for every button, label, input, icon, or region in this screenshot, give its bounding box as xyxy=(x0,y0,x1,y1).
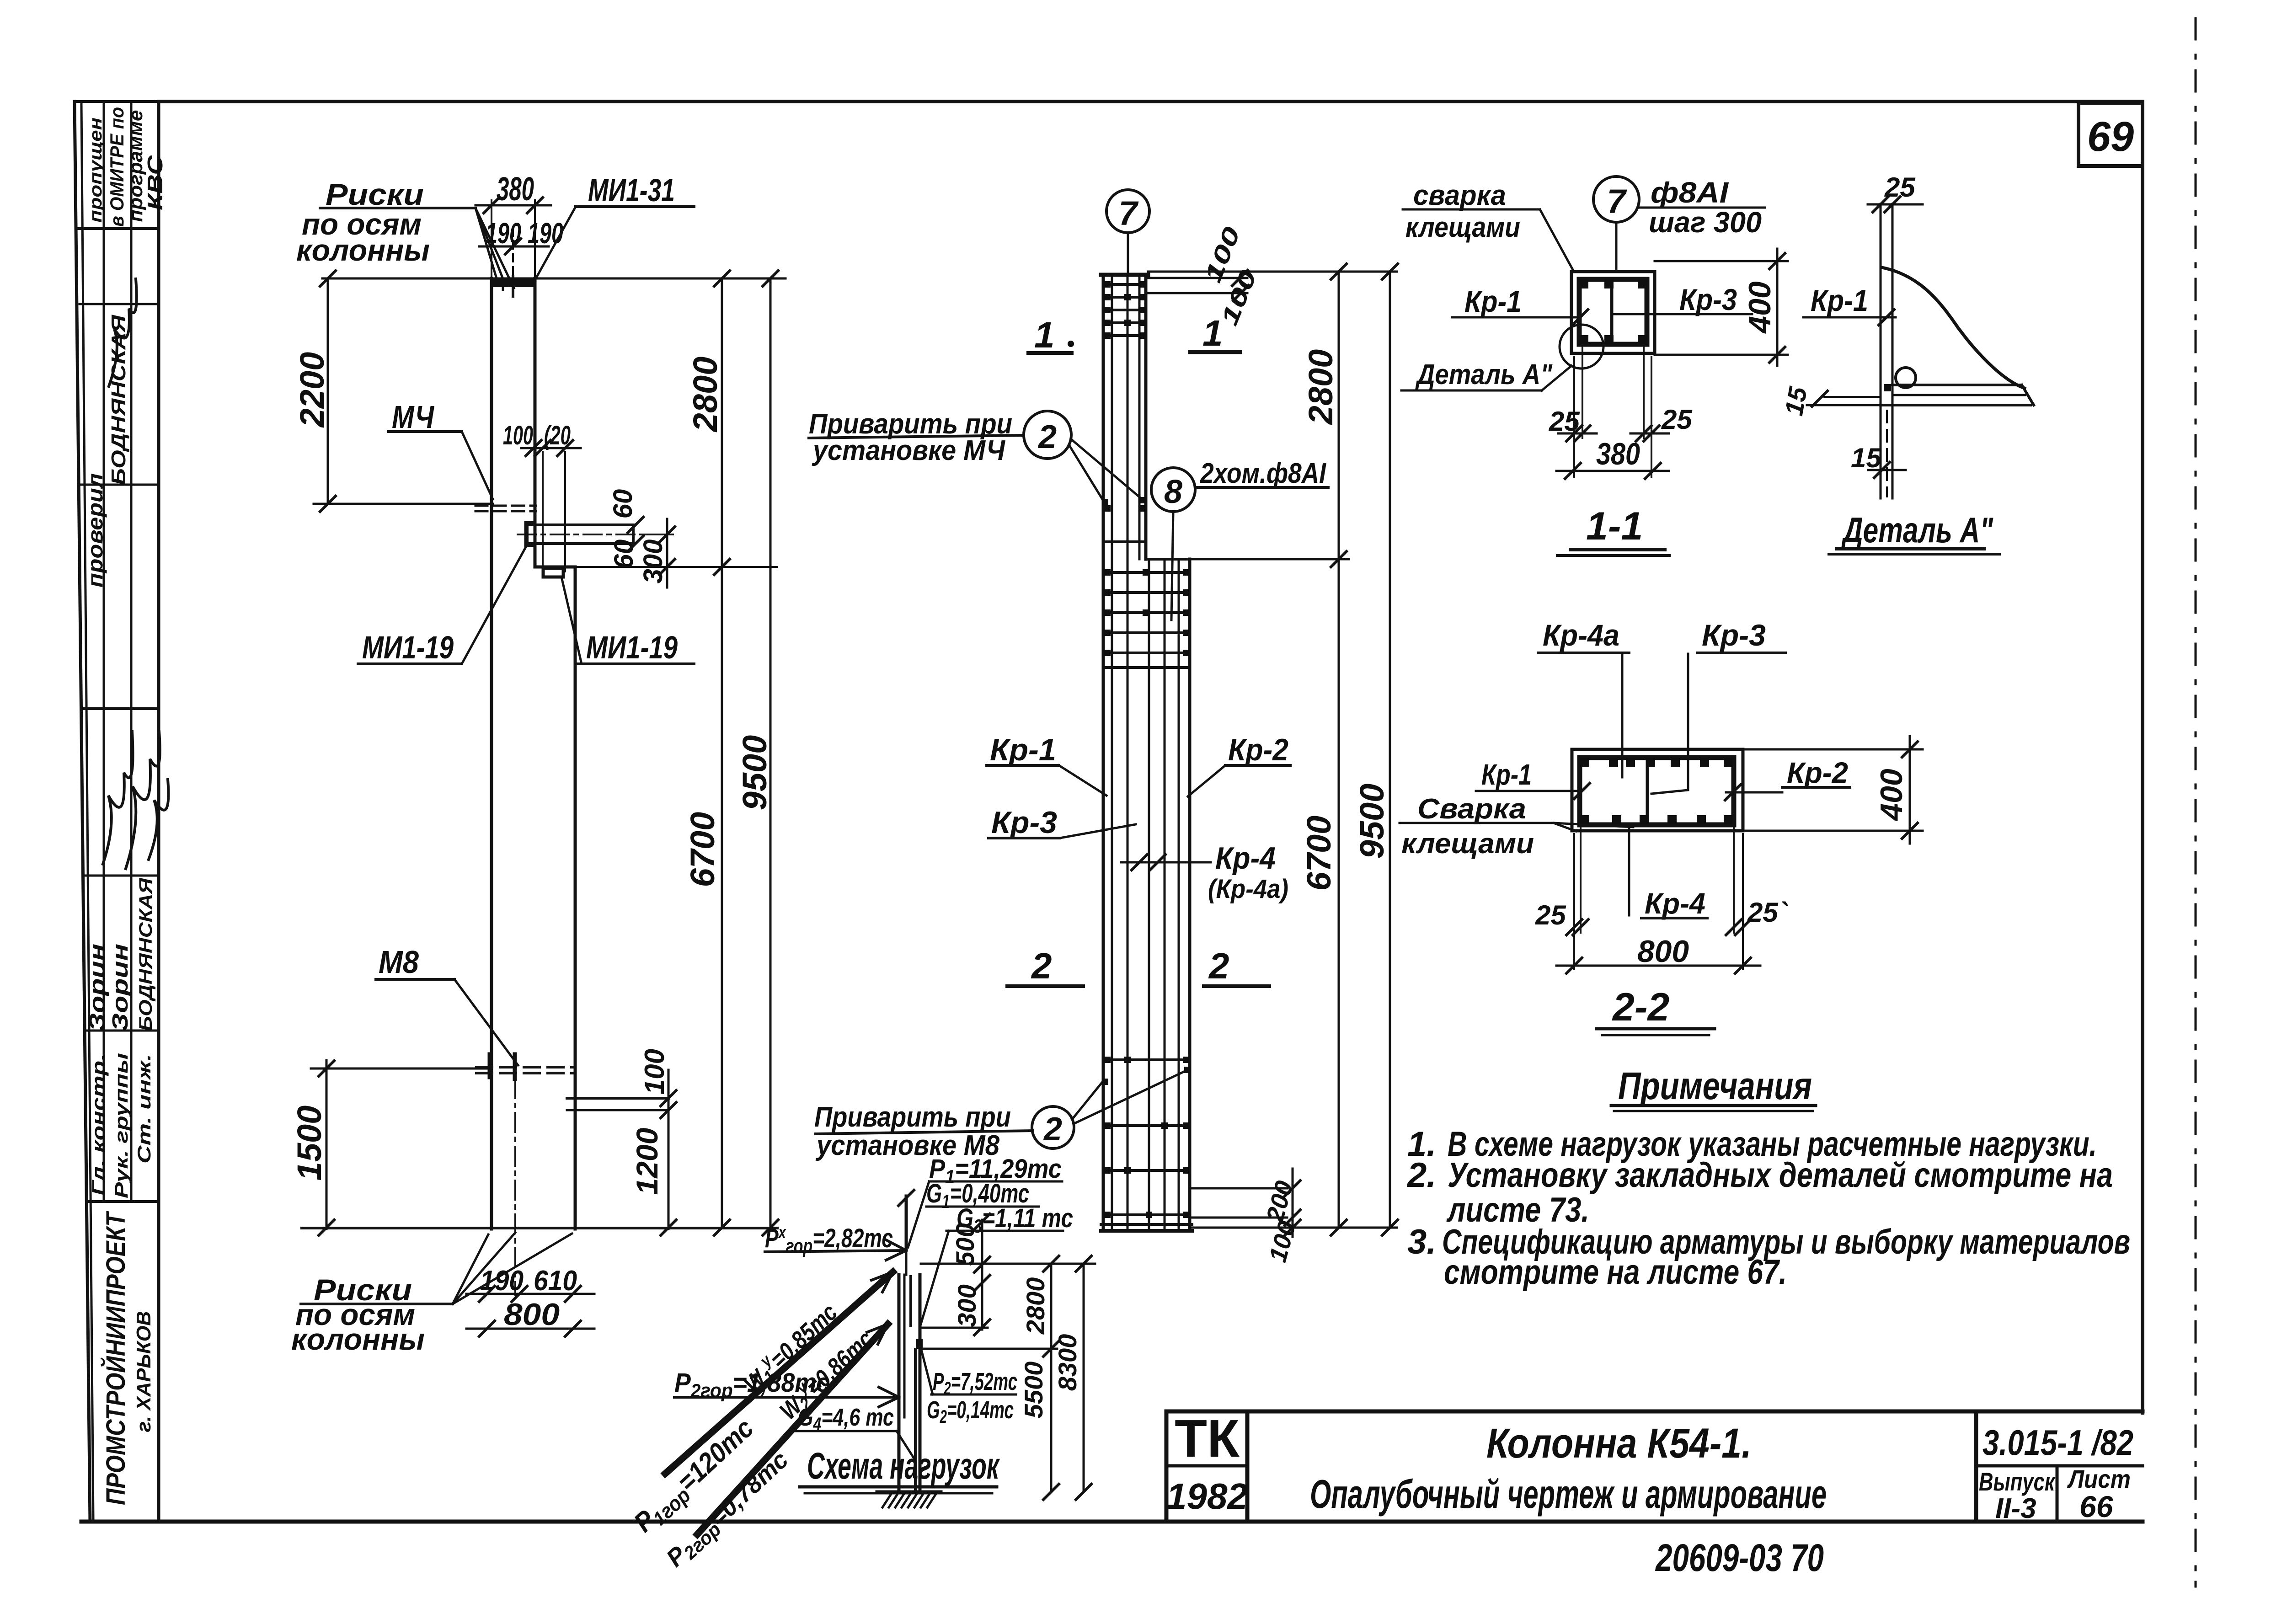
svg-text:6700: 6700 xyxy=(684,812,721,887)
label Приварить при установке МЧ with circle 2 xyxy=(809,408,1145,505)
svg-text:20609-03 70: 20609-03 70 xyxy=(1655,1536,1824,1579)
longitudinal bar left edge xyxy=(1102,275,1105,1230)
svg-text:ТК: ТК xyxy=(1175,1409,1240,1468)
stamp row divider lines xyxy=(79,229,159,1202)
svg-text:2800: 2800 xyxy=(1302,349,1340,426)
dim 15 (left of leg) xyxy=(1779,385,1881,418)
scheme column top mast xyxy=(898,1190,914,1250)
column top cap plate xyxy=(491,278,536,287)
longitudinal bar 3 (center) xyxy=(1127,275,1129,1230)
svg-text:1500: 1500 xyxy=(290,1106,328,1181)
svg-text:Ст. инж.: Ст. инж. xyxy=(134,1054,155,1164)
middle view top dim reference line xyxy=(1148,271,1397,273)
svg-text:Схема нагрузок: Схема нагрузок xyxy=(807,1445,1000,1487)
series cell 3.015-1/82 xyxy=(1976,1411,2143,1522)
cell Лист 66 xyxy=(2067,1464,2131,1523)
scheme column body xyxy=(899,1251,923,1492)
dim 1500 xyxy=(290,1060,492,1235)
top hoop band xyxy=(1103,281,1146,339)
section marker 2 (left) xyxy=(1007,946,1083,986)
svg-text:клещами: клещами xyxy=(1401,828,1534,860)
label G2=0,14тс xyxy=(927,1396,1014,1427)
Деталь А circle callout xyxy=(1401,325,1603,390)
svg-text:8300: 8300 xyxy=(1053,1334,1082,1391)
bar dots 1-1 xyxy=(1579,279,1647,344)
svg-text:2: 2 xyxy=(1037,419,1057,455)
console bar (МИ1-31 tenon) xyxy=(518,523,640,545)
cage bottom double line xyxy=(1101,1224,1192,1231)
svg-text:1982: 1982 xyxy=(1166,1476,1248,1517)
sheet outer left border (double, slightly skewed by scan) xyxy=(75,101,93,1522)
svg-text:2800: 2800 xyxy=(1021,1277,1050,1335)
ТК box xyxy=(1166,1409,1248,1522)
longitudinal bar 4 xyxy=(1138,275,1141,559)
right scan edge broken line xyxy=(2195,18,2197,1587)
column step at console xyxy=(535,566,575,569)
svg-text:2.: 2. xyxy=(1406,1156,1436,1195)
label Кр-2 (middle view) xyxy=(1188,732,1290,796)
svg-text:15: 15 xyxy=(1779,385,1812,418)
svg-text:Установку закладных деталей см: Установку закладных деталей смотрите на xyxy=(1448,1156,2113,1195)
svg-text:в ОМИТРЕ по: в ОМИТРЕ по xyxy=(106,107,128,227)
label Кр-1 (middle view) xyxy=(987,732,1106,796)
dim 2200 xyxy=(293,271,493,512)
svg-text:25: 25 xyxy=(1549,406,1580,437)
dim 400 (2-2) xyxy=(1743,736,1923,844)
title 1-1 xyxy=(1557,504,1669,556)
svg-text:300: 300 xyxy=(952,1284,981,1327)
svg-text:МЧ: МЧ xyxy=(392,399,434,435)
svg-text:МИ1-19: МИ1-19 xyxy=(586,630,678,665)
concrete break wavy edge xyxy=(1882,267,2025,388)
svg-text:МИ1-19: МИ1-19 xyxy=(362,630,454,665)
outer concrete square xyxy=(1571,272,1655,353)
svg-text:25: 25 xyxy=(1535,900,1566,930)
top reference line xyxy=(322,278,785,280)
svg-text:380: 380 xyxy=(497,171,534,208)
svg-text:колонны: колонны xyxy=(291,1322,425,1356)
section marker 1 (right) xyxy=(1190,313,1240,353)
column axis dash-dot below xyxy=(514,1079,516,1295)
svg-text:Приварить при: Приварить при xyxy=(814,1101,1011,1133)
step hoop band xyxy=(1103,569,1190,668)
top dims 100 100 xyxy=(1148,223,1262,329)
dim 190 190 xyxy=(479,217,563,274)
label Кр-3 (middle view) xyxy=(989,805,1136,840)
bottom hoop band xyxy=(1103,1057,1190,1218)
weld dot xyxy=(1884,384,1891,391)
svg-text:БОДНЯНСКАЯ: БОДНЯНСКАЯ xyxy=(107,315,130,485)
middle step extension line xyxy=(1190,558,1349,561)
title Примечания xyxy=(1611,1064,1816,1111)
label МИ1-19 (left) xyxy=(358,545,527,665)
svg-text:25: 25 xyxy=(1661,404,1693,435)
section marker 1. (left) xyxy=(1028,315,1074,355)
svg-text:Кр-1: Кр-1 xyxy=(1811,283,1868,317)
svg-text:клещами: клещами xyxy=(1405,212,1520,243)
svg-text:Кр-1: Кр-1 xyxy=(1481,758,1532,791)
svg-text:(20: (20 xyxy=(544,421,571,450)
svg-text:3.015-1 /82: 3.015-1 /82 xyxy=(1982,1422,2133,1463)
label G1=0,40тс xyxy=(926,1179,1039,1212)
svg-text:Кр-4а: Кр-4а xyxy=(1543,618,1619,652)
label ф8АІ шаг 300 xyxy=(1639,176,1765,239)
svg-text:МИ1-31: МИ1-31 xyxy=(588,172,675,208)
bar dots 2-2 top row xyxy=(1580,758,1733,767)
middle bar 2-2 xyxy=(1646,758,1649,825)
svg-text:Риски: Риски xyxy=(326,177,424,211)
horizontal angle leg xyxy=(1881,385,2034,405)
svg-text:800: 800 xyxy=(504,1297,560,1332)
svg-text:М8: М8 xyxy=(379,944,419,980)
svg-text:69: 69 xyxy=(2087,113,2134,160)
stamp rotated header text xyxy=(86,107,167,227)
riska tick marks on cap xyxy=(512,276,514,296)
lower embed plate МИ1-19 xyxy=(543,568,563,577)
svg-text:5500: 5500 xyxy=(1019,1362,1048,1419)
svg-text:2200: 2200 xyxy=(293,352,331,428)
main frame top border xyxy=(159,100,2143,103)
svg-text:300: 300 xyxy=(638,540,668,584)
dims 25 25 (2-2) xyxy=(1535,828,1788,969)
main frame right border xyxy=(2141,101,2144,1413)
svg-text:смотрите на листе 67.: смотрите на листе 67. xyxy=(1444,1253,1787,1292)
svg-text:Выпуск: Выпуск xyxy=(1979,1467,2056,1496)
label Риски по осям колонны (bottom) xyxy=(291,1233,572,1356)
svg-text:Кр-3: Кр-3 xyxy=(1679,283,1737,316)
dim 300 (console) xyxy=(577,519,777,588)
embed М8 dashed lines xyxy=(476,1054,575,1079)
label Р2гор=1,88тс xyxy=(674,1368,899,1407)
svg-text:Опалубочный чертеж и армиро: Опалубочный чертеж и армирование xyxy=(1310,1471,1827,1517)
svg-text:25`: 25` xyxy=(1747,897,1788,928)
svg-text:проверил: проверил xyxy=(83,473,107,588)
dim line 2800/6700 (left view) xyxy=(684,271,730,1235)
sheet number box 69 xyxy=(2079,103,2143,166)
svg-text:3.: 3. xyxy=(1407,1223,1436,1261)
svg-text:КВС: КВС xyxy=(143,155,167,210)
dim 500/300 (scheme) xyxy=(951,1214,990,1335)
svg-text:8: 8 xyxy=(1164,474,1182,510)
svg-text:60: 60 xyxy=(609,540,639,569)
svg-text:г. ХАРЬКОВ: г. ХАРЬКОВ xyxy=(133,1311,155,1432)
svg-text:2хом.ф8АІ: 2хом.ф8АІ xyxy=(1200,458,1326,489)
title Схема нагрузок xyxy=(800,1445,1000,1493)
svg-text:колонны: колонны xyxy=(296,233,430,267)
label сварка клещами (1-1) xyxy=(1403,180,1573,270)
stamp signatures middle block xyxy=(103,732,168,869)
dim 15 (bottom) xyxy=(1851,411,1906,497)
svg-text:1200: 1200 xyxy=(630,1127,664,1195)
cell Выпуск II-3 xyxy=(1979,1466,2057,1524)
column left edge xyxy=(490,278,493,1229)
stamp top edge xyxy=(75,100,159,103)
svg-text:190: 190 xyxy=(528,217,563,250)
svg-text:9500: 9500 xyxy=(1353,784,1391,859)
svg-text:Деталь А": Деталь А" xyxy=(1841,510,1993,550)
svg-text:7: 7 xyxy=(1118,194,1139,232)
bar dots 2-2 bottom row xyxy=(1580,815,1733,824)
svg-text:Кр-1: Кр-1 xyxy=(990,732,1056,767)
dim 100 / 1200 (right of column bottom) xyxy=(630,1049,676,1235)
dims 60 60 at bar end xyxy=(608,489,643,569)
label Ргор=2,82тс xyxy=(765,1223,906,1260)
dim 800 (bottom) xyxy=(466,1297,594,1336)
svg-text:66: 66 xyxy=(2079,1490,2114,1523)
svg-text:1-1: 1-1 xyxy=(1586,504,1643,548)
middle dim line 9500 xyxy=(1353,264,1398,1235)
anchor bar circle xyxy=(1896,368,1916,388)
label МИ1-19 (right) xyxy=(561,577,694,665)
section marker 2 (right) xyxy=(1204,946,1269,986)
label Кр-3 (1-1) xyxy=(1614,283,1752,316)
svg-text:Кр-3: Кр-3 xyxy=(991,805,1057,840)
svg-text:610: 610 xyxy=(534,1265,577,1297)
embed МЧ dashed lines xyxy=(476,506,536,511)
svg-text:190: 190 xyxy=(480,1265,524,1297)
svg-text:Зорин: Зорин xyxy=(85,944,110,1031)
svg-text:2: 2 xyxy=(1208,946,1229,986)
dims 25 25 (1-1) xyxy=(1549,347,1693,441)
svg-text:Кр-4: Кр-4 xyxy=(1645,887,1705,920)
circle mark 7 (1-1) xyxy=(1593,176,1639,272)
dim 380 (1-1) xyxy=(1556,437,1669,479)
label Кр-1 (деталь) xyxy=(1803,283,1896,325)
svg-text:G2=0,14тс: G2=0,14тс xyxy=(927,1396,1014,1427)
svg-text:9500: 9500 xyxy=(736,735,774,811)
svg-text:Сварка: Сварка xyxy=(1417,793,1526,825)
svg-text:Кр-2: Кр-2 xyxy=(1228,732,1288,767)
svg-text:Зорин: Зорин xyxy=(108,944,133,1031)
outer concrete rect xyxy=(1572,749,1743,831)
wide part bars xyxy=(1149,559,1190,1230)
label Риски по осям колонны (top) xyxy=(296,177,514,288)
scheme horizontal refs xyxy=(921,1264,1095,1349)
svg-text:6700: 6700 xyxy=(1300,816,1338,891)
svg-text:Кр-2: Кр-2 xyxy=(1787,756,1848,789)
label Кр-4 (2-2) xyxy=(1629,828,1707,920)
svg-text:Гл. констр.: Гл. констр. xyxy=(89,1054,109,1196)
label Сварка клещами (2-2) xyxy=(1400,793,1633,860)
label Кр-2 (2-2) xyxy=(1725,756,1850,800)
svg-text:2800: 2800 xyxy=(686,357,724,433)
label Кр-3 (2-2) xyxy=(1651,618,1785,794)
dim 800 (2-2) xyxy=(1556,934,1760,973)
svg-text:380: 380 xyxy=(1596,437,1640,471)
svg-text:БОДНЯНСКАЯ: БОДНЯНСКАЯ xyxy=(136,878,156,1031)
dim 190 610 (bottom) xyxy=(466,1265,594,1302)
dim 25 (деталь) xyxy=(1868,172,1923,212)
circle mark 7 xyxy=(1106,190,1149,275)
scheme ground base xyxy=(877,1492,941,1507)
middle bottom extension line xyxy=(1192,1227,1397,1229)
upper right edge bar xyxy=(1144,275,1148,559)
svg-text:Кр-3: Кр-3 xyxy=(1702,618,1766,652)
step of cage xyxy=(1146,558,1190,561)
svg-text:60: 60 xyxy=(608,489,638,519)
dim 400 (1-1) xyxy=(1655,249,1788,366)
middle dim line 2800/6700 xyxy=(1300,264,1347,1235)
svg-text:500: 500 xyxy=(951,1223,979,1266)
stamp titles xyxy=(89,1053,155,1198)
svg-text:100: 100 xyxy=(1264,1218,1301,1265)
dim line 9500 (left view) xyxy=(736,271,778,1235)
label P1=11,29тс xyxy=(908,1154,1062,1247)
lower console lines xyxy=(567,1098,668,1110)
dim 380 xyxy=(476,171,551,278)
svg-text:Кр-4: Кр-4 xyxy=(1215,841,1276,876)
svg-text:ф8АІ: ф8АІ xyxy=(1651,176,1729,209)
svg-text:400: 400 xyxy=(1874,769,1909,822)
svg-text:2-2: 2-2 xyxy=(1612,985,1669,1029)
svg-text:Кр-1: Кр-1 xyxy=(1464,284,1522,318)
label Приварить при установке М8 with circle 2 xyxy=(814,1067,1191,1161)
svg-text:Лист: Лист xyxy=(2067,1464,2131,1493)
single hoop mid upper xyxy=(1103,505,1146,542)
svg-text:7: 7 xyxy=(1607,182,1627,220)
column bottom line / reference xyxy=(302,1227,777,1229)
label G4=4,6тс xyxy=(796,1404,914,1458)
svg-text:15: 15 xyxy=(1851,443,1882,473)
main frame bottom border xyxy=(81,1520,2143,1524)
svg-text:Деталь А": Деталь А" xyxy=(1415,359,1553,390)
label G3=1,11тс xyxy=(921,1203,1073,1324)
thick diagonal force line 1 xyxy=(665,1272,893,1474)
label Кр-4а xyxy=(1538,618,1629,777)
svg-text:установке МЧ: установке МЧ xyxy=(812,435,1005,466)
dim 100 120 xyxy=(503,421,581,574)
dim 2800/5500 (scheme) xyxy=(1019,1256,1059,1500)
svg-text:(Кр-4а): (Кр-4а) xyxy=(1208,874,1288,904)
title 2-2 xyxy=(1597,985,1715,1035)
stamp column verticals xyxy=(104,101,159,1522)
svg-text:ПРОМСТРОЙНИИПРОЕКТ: ПРОМСТРОЙНИИПРОЕКТ xyxy=(101,1211,131,1505)
svg-text:2: 2 xyxy=(1043,1111,1062,1148)
label МИ1-31 xyxy=(536,172,694,278)
svg-text:1: 1 xyxy=(1034,315,1055,355)
label МЧ xyxy=(389,399,493,499)
bottom dims 100 200 xyxy=(1192,1169,1301,1265)
label Кр-1 (1-1) xyxy=(1452,284,1588,325)
label Р2=7,52тс xyxy=(920,1346,1017,1399)
svg-text:пропущен: пропущен xyxy=(86,118,106,223)
vertical plate xyxy=(1881,204,1892,498)
svg-text:Примечания: Примечания xyxy=(1618,1064,1812,1107)
svg-text:шаг 300: шаг 300 xyxy=(1649,206,1762,239)
svg-text:сварка: сварка xyxy=(1413,180,1506,211)
stamp names Зорин Зорин БОДНЯНСКАЯ xyxy=(85,878,156,1031)
label Кр-4 (Кр-4а) xyxy=(1121,841,1288,904)
middle bar of stirrup xyxy=(1610,279,1614,344)
column lower right edge xyxy=(574,567,577,1229)
svg-text:100: 100 xyxy=(503,421,533,450)
longitudinal bar 2 xyxy=(1111,275,1113,1230)
column upper right edge xyxy=(534,278,537,567)
title block top line xyxy=(1166,1410,2143,1414)
cage top cap xyxy=(1101,273,1148,277)
thick diagonal force line 2 xyxy=(697,1324,888,1534)
svg-text:Рук. группы: Рук. группы xyxy=(112,1053,132,1198)
svg-text:800: 800 xyxy=(1637,934,1689,969)
inner stirrup frame 2-2 xyxy=(1580,758,1734,825)
label Кр-1 (2-2) xyxy=(1476,758,1590,799)
stamp bottom org name xyxy=(101,1211,155,1505)
svg-text:Колонна К54-1.: Колонна К54-1. xyxy=(1486,1420,1752,1467)
svg-text:2: 2 xyxy=(1031,946,1052,986)
svg-text:100: 100 xyxy=(639,1049,670,1095)
title Деталь А xyxy=(1829,510,1999,554)
label М8 xyxy=(376,944,518,1065)
circle mark 8 with 2хом.ф8АІ xyxy=(1151,458,1328,620)
svg-text:400: 400 xyxy=(1742,281,1777,334)
inner stirrup frame xyxy=(1579,279,1647,344)
dim 8300 (scheme) xyxy=(1053,1256,1091,1500)
stamp signature squiggle top xyxy=(109,279,137,386)
